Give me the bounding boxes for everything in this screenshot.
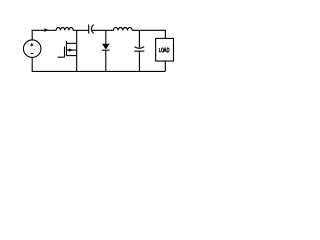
- diode D1 triangle: [102, 44, 110, 50]
- wire load bottom lead: [164, 61, 166, 71]
- mosfet Q1 body lead: [67, 49, 77, 51]
- mosfet Q1 gate plate: [64, 46, 66, 57]
- wire source bottom lead: [31, 57, 33, 71]
- letter O: [161, 48, 163, 52]
- capacitor C2 bottom lead: [138, 51, 140, 71]
- letter A: [164, 48, 167, 52]
- mosfet Q1 source bar: [67, 55, 77, 57]
- wire diode bottom lead: [105, 50, 107, 71]
- inductor L2: [113, 27, 132, 30]
- capacitor C2 straight plate: [134, 50, 144, 52]
- wire top-left corner drop to source: [31, 30, 33, 40]
- capacitor C1 straight plate: [88, 25, 90, 34]
- wire L1 to C1: [73, 29, 89, 31]
- wire L2 to output corner: [132, 30, 165, 38]
- capacitor C2 curved plate: [134, 47, 144, 49]
- capacitor C1 curved plate: [91, 25, 93, 34]
- wire mosfet vertical drain-source conductor: [76, 30, 78, 71]
- source minus sign: [31, 53, 34, 55]
- mosfet Q1 gate lead: [58, 56, 65, 58]
- current arrow on input wire: [44, 28, 48, 31]
- source plus sign: [30, 43, 33, 46]
- wire diode top lead: [105, 30, 107, 44]
- wire bottom rail: [32, 70, 166, 72]
- letter L: [159, 48, 161, 52]
- mosfet Q1 channel plate: [66, 41, 68, 56]
- mosfet Q1 body arrow: [69, 48, 73, 51]
- mosfet Q1 drain bar: [67, 42, 77, 44]
- wire top rail: corner to L1: [32, 29, 57, 31]
- source V1 (DC source circle): [23, 40, 41, 58]
- load box: [156, 38, 174, 61]
- diode D1 cathode bar: [102, 49, 110, 51]
- wire C1 to L2: [92, 29, 114, 31]
- inductor L1: [56, 28, 73, 31]
- letter D: [167, 48, 169, 52]
- capacitor C2 top lead: [138, 30, 140, 47]
- load label (word LOAD drawn as paths): [159, 48, 169, 52]
